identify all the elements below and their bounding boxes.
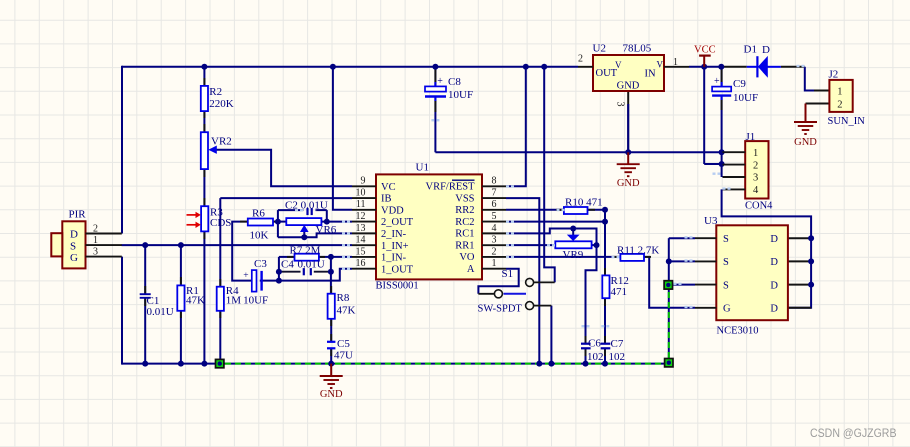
- svg-text:R11 2.7K: R11 2.7K: [617, 244, 659, 256]
- svg-text:C3: C3: [254, 258, 267, 270]
- svg-text:C7: C7: [611, 338, 624, 350]
- svg-text:U3: U3: [704, 215, 718, 227]
- svg-text:VRF/REST: VRF/REST: [425, 182, 475, 193]
- svg-text:1: 1: [753, 148, 758, 159]
- svg-text:NCE3010: NCE3010: [717, 326, 759, 337]
- svg-text:R7 2M: R7 2M: [290, 244, 321, 256]
- svg-text:J2: J2: [829, 68, 839, 80]
- svg-text:1: 1: [492, 258, 497, 269]
- svg-text:D1: D1: [744, 43, 757, 55]
- svg-text:S: S: [723, 257, 729, 268]
- svg-text:0.01U: 0.01U: [147, 306, 174, 318]
- svg-text:VR9: VR9: [563, 249, 584, 261]
- svg-text:2: 2: [492, 246, 497, 257]
- svg-text:D: D: [770, 234, 778, 245]
- svg-text:RR2: RR2: [455, 205, 474, 216]
- svg-text:IB: IB: [381, 194, 392, 205]
- svg-text:13: 13: [356, 223, 366, 234]
- svg-text:3: 3: [492, 235, 497, 246]
- svg-text:1M: 1M: [226, 295, 242, 307]
- svg-text:47U: 47U: [334, 350, 353, 362]
- svg-text:2: 2: [578, 54, 583, 65]
- svg-text:CON4: CON4: [745, 201, 773, 212]
- svg-text:GND: GND: [617, 80, 640, 91]
- svg-text:10: 10: [356, 187, 366, 198]
- svg-text:A: A: [467, 264, 475, 275]
- svg-text:VSS: VSS: [455, 193, 474, 204]
- svg-text:D: D: [770, 304, 778, 315]
- svg-text:102: 102: [609, 351, 626, 363]
- svg-text:1_OUT: 1_OUT: [381, 264, 414, 275]
- svg-text:SUN_IN: SUN_IN: [828, 116, 866, 127]
- svg-text:102: 102: [587, 351, 604, 363]
- svg-text:GND: GND: [794, 137, 817, 148]
- svg-text:+: +: [437, 76, 443, 87]
- svg-text:VDD: VDD: [381, 205, 404, 216]
- svg-text:U2: U2: [593, 43, 606, 55]
- svg-text:1_IN-: 1_IN-: [381, 253, 407, 264]
- svg-text:VR6: VR6: [316, 224, 337, 236]
- svg-text:V: V: [657, 60, 664, 70]
- svg-text:10K: 10K: [250, 229, 269, 241]
- svg-text:D: D: [770, 257, 778, 268]
- svg-text:RC2: RC2: [455, 217, 474, 228]
- svg-text:PIR: PIR: [69, 209, 87, 221]
- svg-text:C8: C8: [448, 76, 461, 88]
- svg-text:2: 2: [93, 223, 98, 234]
- svg-text:R8: R8: [337, 292, 350, 304]
- svg-text:8: 8: [492, 176, 497, 187]
- svg-text:6: 6: [492, 199, 497, 210]
- svg-text:220K: 220K: [209, 98, 234, 110]
- svg-text:0.01U: 0.01U: [298, 259, 325, 271]
- svg-text:RR1: RR1: [455, 240, 474, 251]
- svg-text:47K: 47K: [337, 305, 356, 317]
- svg-text:3: 3: [93, 246, 98, 257]
- svg-text:12: 12: [356, 211, 366, 222]
- svg-text:V: V: [615, 60, 622, 70]
- svg-text:4: 4: [753, 185, 759, 196]
- svg-text:BISS0001: BISS0001: [376, 281, 419, 292]
- svg-text:471: 471: [611, 286, 628, 298]
- svg-text:C4: C4: [281, 259, 294, 271]
- svg-text:D: D: [762, 44, 770, 56]
- svg-text:2: 2: [837, 99, 842, 110]
- svg-text:10UF: 10UF: [733, 92, 758, 104]
- svg-text:11: 11: [356, 199, 366, 210]
- svg-text:R10 471: R10 471: [565, 196, 603, 208]
- svg-text:4: 4: [492, 223, 497, 234]
- svg-text:CSDN @GJZGRB: CSDN @GJZGRB: [810, 426, 897, 440]
- svg-text:7: 7: [492, 187, 497, 198]
- svg-text:1: 1: [673, 57, 678, 68]
- svg-text:14: 14: [356, 235, 366, 246]
- svg-text:1: 1: [93, 235, 98, 246]
- svg-text:IN: IN: [645, 68, 656, 79]
- svg-text:J1: J1: [746, 131, 756, 143]
- svg-text:S: S: [70, 240, 76, 252]
- svg-text:5: 5: [492, 211, 497, 222]
- svg-text:C2 0.01U: C2 0.01U: [285, 199, 328, 211]
- svg-text:VCC: VCC: [694, 45, 716, 56]
- svg-text:RC1: RC1: [455, 229, 474, 240]
- svg-text:10UF: 10UF: [448, 89, 473, 101]
- svg-text:S1: S1: [502, 268, 514, 280]
- svg-text:GND: GND: [617, 178, 640, 189]
- svg-text:D: D: [770, 280, 778, 291]
- svg-text:10UF: 10UF: [243, 295, 268, 307]
- svg-text:C5: C5: [337, 338, 350, 350]
- svg-text:R6: R6: [252, 208, 265, 220]
- svg-text:CDS: CDS: [210, 217, 231, 229]
- svg-text:78L05: 78L05: [623, 43, 652, 55]
- svg-text:2: 2: [753, 160, 758, 171]
- svg-text:G: G: [70, 252, 78, 264]
- svg-text:3: 3: [615, 102, 626, 107]
- svg-text:9: 9: [361, 176, 366, 187]
- svg-text:U1: U1: [416, 161, 429, 173]
- svg-text:G: G: [723, 304, 731, 315]
- svg-text:+: +: [243, 271, 248, 281]
- svg-text:15: 15: [356, 246, 366, 257]
- svg-text:2_OUT: 2_OUT: [381, 217, 414, 228]
- svg-text:1_IN+: 1_IN+: [381, 241, 409, 252]
- svg-text:VC: VC: [381, 182, 396, 193]
- svg-text:D: D: [70, 229, 78, 241]
- svg-text:16: 16: [356, 258, 366, 269]
- svg-text:C6: C6: [588, 337, 601, 349]
- svg-text:GND: GND: [320, 389, 343, 400]
- svg-text:2_IN-: 2_IN-: [381, 229, 407, 240]
- svg-text:S: S: [723, 280, 729, 291]
- svg-text:C9: C9: [733, 78, 746, 90]
- svg-text:1: 1: [837, 86, 842, 97]
- svg-text:R2: R2: [209, 86, 222, 98]
- svg-text:+: +: [714, 76, 720, 87]
- svg-text:47K: 47K: [186, 295, 205, 307]
- svg-text:3: 3: [753, 173, 758, 184]
- svg-text:VR2: VR2: [211, 136, 232, 148]
- svg-text:S: S: [723, 234, 729, 245]
- svg-text:SW-SPDT: SW-SPDT: [478, 304, 523, 315]
- svg-text:VO: VO: [459, 252, 475, 263]
